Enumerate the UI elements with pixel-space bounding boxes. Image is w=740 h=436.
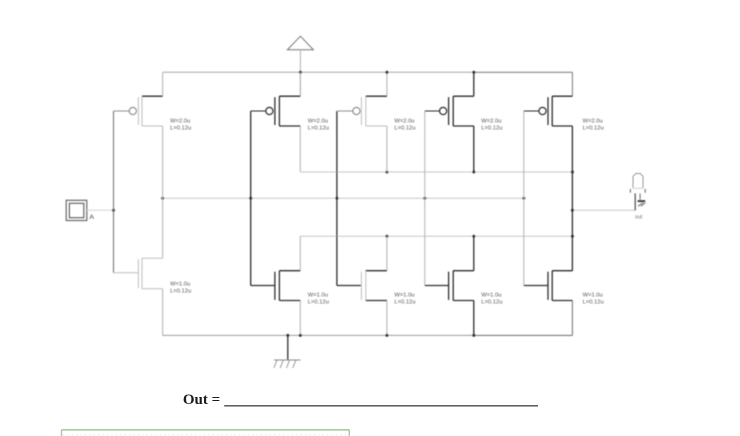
wire inv1 output vertical (162, 126, 164, 258)
wire node X bus (inv1 out to gates) y=198 (163, 197, 524, 199)
junction P3 rail (385, 71, 388, 74)
junction bus172 x=473.8 (472, 171, 475, 174)
transistor NMOS N1 (114, 258, 163, 289)
wire gate vertical stage 3 (336, 111, 338, 286)
wire gate vertical stage 2 (250, 111, 252, 286)
transistor PMOS P2 (251, 96, 301, 126)
svg-text:W=1.0u: W=1.0u (308, 292, 328, 298)
junction bus236 x=572.4 (571, 235, 574, 238)
wire input A (87, 209, 114, 211)
ground symbol (274, 335, 301, 368)
wire P4 drain riser (473, 126, 475, 172)
wire out net (572, 209, 634, 211)
junction VDD-rail (299, 71, 302, 74)
answer underline (224, 405, 538, 407)
value label N2 W/L (308, 292, 329, 305)
svg-text:W=1.0u: W=1.0u (170, 281, 190, 287)
wire NMOS drain bus y=236 (300, 235, 572, 237)
svg-text:L=0.12u: L=0.12u (170, 289, 191, 295)
wire N5 source to rail (571, 301, 573, 336)
value label N1 W/L (170, 281, 191, 294)
wire P2 source riser (299, 72, 301, 96)
wire N3 source riser (386, 301, 388, 336)
wire gate vertical stage 4 (424, 111, 426, 286)
junction P4 rail (472, 71, 475, 74)
wire output vertical (P5/N5 drains) (571, 126, 573, 271)
power VDD symbol (287, 36, 313, 96)
svg-text:L=0.12u: L=0.12u (308, 126, 329, 132)
wire PMOS drain bus y=172 (300, 171, 572, 173)
value label N5 W/L (583, 292, 604, 305)
wire N3 drain riser (386, 236, 388, 271)
svg-text:Out =: Out = (183, 392, 220, 408)
value label N3 W/L (394, 292, 415, 305)
wire N4 drain riser (473, 236, 475, 271)
wire rail drop left (P1 source) (162, 72, 164, 96)
transistor PMOS P5 (524, 96, 573, 126)
transistor PMOS P4 (425, 96, 474, 126)
transistor NMOS N4 (425, 271, 474, 301)
port A input pin (66, 200, 94, 221)
junction bus198 x=162.6 (161, 197, 164, 200)
svg-text:L=0.12u: L=0.12u (583, 126, 604, 132)
junction bus172 x=572.4 (571, 171, 574, 174)
svg-text:out: out (635, 214, 643, 220)
svg-text:L=0.12u: L=0.12u (481, 126, 502, 132)
junction bus236 x=386.9 (385, 235, 388, 238)
value label P5 W/L (583, 119, 604, 132)
value label P2 W/L (308, 119, 329, 132)
svg-text:W=1.0u: W=1.0u (481, 292, 501, 298)
green answer box bottom (62, 430, 350, 436)
junction N4 source rail (472, 334, 475, 337)
wire rail drop right (P5 source) (571, 72, 573, 96)
junction out wire (571, 209, 574, 212)
wire gate vertical stage 5 (523, 111, 525, 286)
wire P3 drain riser (386, 126, 388, 172)
value label P1 W/L (170, 119, 191, 132)
transistor NMOS N2 (251, 271, 301, 301)
svg-text:W=1.0u: W=1.0u (394, 292, 414, 298)
value label N4 W/L (481, 292, 502, 305)
junction bus236 x=473.8 (472, 235, 475, 238)
transistor PMOS P3 (337, 96, 387, 126)
svg-text:L=0.12u: L=0.12u (481, 299, 502, 305)
transistor PMOS P1 (114, 96, 163, 126)
wire GND bottom rail (163, 334, 573, 336)
wire N1 source to rail (162, 289, 164, 336)
svg-text:W=2.0u: W=2.0u (170, 119, 190, 125)
value label P4 W/L (481, 119, 502, 132)
svg-text:L=0.12u: L=0.12u (308, 299, 329, 305)
svg-text:W=2.0u: W=2.0u (481, 119, 501, 125)
text Out = (183, 392, 220, 408)
svg-text:W=1.0u: W=1.0u (583, 292, 603, 298)
junction GND-rail (286, 334, 289, 337)
transistor NMOS N5 (524, 271, 573, 301)
wire P4 source riser (473, 72, 475, 96)
value label P3 W/L (394, 119, 415, 132)
svg-text:W=2.0u: W=2.0u (308, 119, 328, 125)
svg-text:W=2.0u: W=2.0u (394, 119, 414, 125)
junction bus198 x=336.9 (335, 197, 338, 200)
port out (export symbol) (630, 174, 645, 221)
junction bus198 x=523.8 (522, 197, 525, 200)
svg-text:A: A (89, 214, 94, 221)
junction bus198 x=250.7 (249, 197, 252, 200)
junction bus198 x=424.8 (423, 197, 426, 200)
junction input-gate net (112, 209, 115, 212)
wire P2 drain riser (299, 126, 301, 172)
svg-text:L=0.12u: L=0.12u (170, 126, 191, 132)
junction bus172 x=386.9 (385, 171, 388, 174)
wire N4 source riser (473, 301, 475, 336)
svg-text:L=0.12u: L=0.12u (394, 126, 415, 132)
wire N2 drain riser (299, 236, 301, 271)
wire N2 source riser (299, 301, 301, 336)
svg-text:L=0.12u: L=0.12u (394, 299, 415, 305)
svg-text:W=2.0u: W=2.0u (583, 119, 603, 125)
wire gate vertical stage 1 (113, 111, 115, 273)
wire VDD top rail (163, 71, 573, 73)
transistor NMOS N3 (337, 271, 387, 301)
wire P3 source riser (386, 72, 388, 96)
junction N3 source rail (385, 334, 388, 337)
junction N2 source rail (299, 334, 302, 337)
svg-text:L=0.12u: L=0.12u (583, 299, 604, 305)
